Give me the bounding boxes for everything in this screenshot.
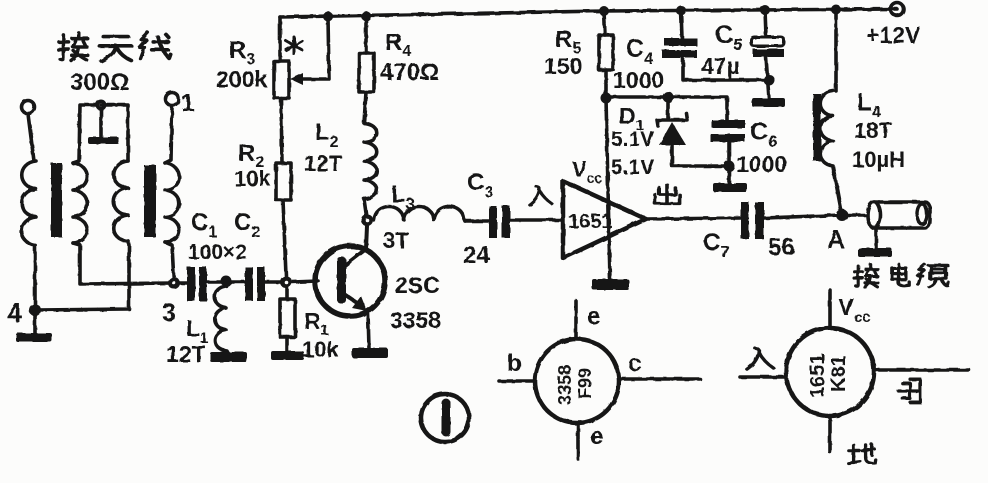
svg-text:5.1V: 5.1V [611,128,654,151]
svg-text:C1: C1 [191,209,217,241]
inductor L3 [374,206,465,221]
node 3 [168,277,180,289]
label 地 [848,444,875,463]
transformer T1 core bar [51,163,62,237]
pin b left lead [499,379,535,383]
svg-text:3358: 3358 [390,307,441,333]
node junction L4 on rail [831,5,841,15]
op-amp U1 triangle [563,181,646,258]
node junction C6/D1 [724,161,735,172]
node base junction [280,276,292,288]
wire Vcc pin through to ground pin [606,98,610,281]
label 入 [747,348,774,369]
svg-text:Vcc: Vcc [572,157,602,186]
wire top rail [280,9,897,17]
wire center tap to winding3 [101,105,128,161]
wire C3 to amplifier [510,218,563,222]
pin ground bottom lead [828,416,832,452]
wire winding4 bottom to node 3 [165,242,174,283]
capacitor C3 [489,206,497,238]
inductor L4 [820,91,833,166]
pin output right lead [874,368,969,372]
wire left terminal to winding [28,114,34,161]
capacitor C7 [741,202,749,239]
coax connector [874,202,930,228]
svg-text:150: 150 [544,53,582,79]
wire rail to R4 [364,16,368,53]
wire C7 to node A [764,215,842,218]
svg-text:10k: 10k [302,337,339,362]
svg-text:470Ω: 470Ω [380,59,439,86]
pot wiper arrowhead [290,73,303,85]
svg-text:300Ω: 300Ω [70,69,129,96]
node junction C4/C5 [764,75,775,86]
svg-text:L2: L2 [315,119,339,151]
capacitor C6 [712,120,745,128]
pin input left lead [740,375,786,379]
svg-text:R4: R4 [385,29,411,60]
label 出 rotated [899,379,921,402]
svg-text:e: e [587,303,600,330]
svg-text:2SC: 2SC [395,272,440,298]
capacitor C4 [681,10,682,38]
pin Vcc top lead [828,290,832,328]
node collector junction [361,214,373,226]
label 1651 K81 rotated [807,354,850,399]
core bar of L4 [813,94,821,161]
wire winding4 top to terminal 1 [165,106,172,163]
svg-text:4: 4 [7,298,22,328]
terminal antenna left [22,101,35,114]
svg-text:C4: C4 [626,35,654,68]
wire winding2 bottom to node 3 [73,243,174,284]
transformer T2 primary winding [114,161,128,241]
chassis stub at center tap [99,110,103,138]
svg-text:12T: 12T [166,341,206,367]
wire winding2 top to center tap [73,105,101,163]
ground of C6 [713,183,747,192]
svg-text:Vcc: Vcc [838,294,871,326]
node junction D1 top [663,92,674,103]
svg-text:C2: C2 [234,209,260,241]
transistor Q1 base bar [337,257,346,303]
wire emitter to ground [368,312,369,349]
transistor pinout circle 3358 F99 [535,339,619,423]
node junction R5/Vcc/zener rail [601,93,612,104]
capacitor C1 [187,267,195,301]
label 出 output [655,184,680,203]
svg-text:5.1V: 5.1V [611,156,654,179]
svg-text:56: 56 [768,234,795,261]
wire C2 to base node [265,280,286,284]
transformer T2 core bar [144,165,156,237]
wire rail to R5 [604,11,605,35]
wire R3 to R2 [281,98,282,163]
ground of R1 [271,351,304,360]
svg-text:1000: 1000 [736,151,787,177]
transistor Q1 collector stroke [344,226,367,266]
svg-text:10µH: 10µH [852,147,905,172]
transformer T1 primary winding left [22,161,36,245]
IC pinout circle 1651 K81 [786,328,874,416]
wire C1 to C2 [207,280,245,284]
node junction R5 on rail [599,6,609,16]
wire winding3 bottom to node 4 [35,241,129,310]
wire R2 to base node [283,200,286,276]
node junction C1/C2/L1 [221,276,232,287]
wire rail corner down to R3 [278,17,282,61]
ground of L1 [210,352,247,362]
svg-text:R3: R3 [229,37,255,68]
node junction R3 wiper on rail [323,12,333,22]
svg-text:A: A [827,226,845,254]
svg-text:1000: 1000 [613,67,664,93]
svg-text:3T: 3T [383,228,409,253]
label 入 input [529,186,552,204]
capacitor C5 electrolytic [765,10,766,36]
terminal center tap [96,100,107,111]
node junction C4 on rail [676,6,686,16]
svg-text:24: 24 [463,242,490,269]
svg-text:L4: L4 [857,89,881,121]
diode D1 zener [666,97,670,118]
node 4 [29,304,41,316]
svg-text:C3: C3 [467,169,493,201]
node junction C5 on rail [760,5,770,15]
terminal 1 [166,93,179,106]
wire R5 to Vcc node [604,70,608,98]
resistor R4 [359,53,374,92]
inductor L2 [364,123,377,199]
wire output to C7 [646,218,741,219]
svg-text:R1: R1 [304,308,329,339]
ground of C5 [752,98,785,107]
svg-text:b: b [507,350,522,377]
svg-text:+12V: +12V [866,22,921,48]
svg-text:C5: C5 [715,21,743,54]
wire base node to transistor [292,281,318,282]
label asterisk [286,37,302,54]
wire L3 to C3 [465,219,489,223]
ground of emitter [352,348,388,358]
terminal +12V [891,3,904,16]
transistor Q1 emitter stroke with arrow [344,294,360,305]
node A junction [836,209,848,221]
wire Vcc node to C6 branch [606,97,727,120]
transformer T2 secondary winding [165,163,179,242]
label 接电缆 [854,265,878,287]
ground of U1 [592,279,629,290]
pin c right lead [619,377,700,381]
resistor R2 [276,163,291,200]
svg-text:18T: 18T [854,118,892,143]
wire node3 to C1 [180,281,187,285]
transistor Q1 circle [315,246,385,316]
figure mark circled 1 [421,394,469,442]
svg-text:F99: F99 [575,368,595,399]
svg-text:200k: 200k [216,66,267,92]
node junction R4 on rail [361,11,371,21]
wire L2 to collector node [364,199,367,220]
svg-text:C7: C7 [703,229,729,261]
resistor R3 (pot body) [274,61,289,98]
transformer T1 secondary winding [73,163,87,243]
capacitor C2 [245,267,253,301]
svg-text:1651: 1651 [807,354,829,399]
svg-text:12T: 12T [304,151,342,176]
svg-text:10k: 10k [234,166,271,191]
label 3358 F99 rotated [555,365,595,405]
pin e top lead [574,301,578,339]
pot wiper arrow wire [298,17,329,79]
svg-text:100×2: 100×2 [188,241,247,264]
ground at node 4 [33,310,37,335]
wire L4 to node A [833,167,842,215]
svg-text:3358: 3358 [555,365,575,405]
inductor L1 [215,286,228,353]
svg-text:47µ: 47µ [701,53,740,79]
svg-text:K81: K81 [828,355,850,392]
resistor R5 [599,35,613,70]
ground of coax [874,228,878,249]
label 接天线 [58,33,87,61]
svg-text:C6: C6 [750,118,778,151]
wire winding1 bottom to node 4 [33,245,37,310]
svg-text:e: e [590,423,603,450]
svg-text:3: 3 [162,299,176,327]
resistor R1 [285,288,289,299]
svg-text:1: 1 [181,90,194,117]
wire R4 to L2 [364,92,366,123]
pin e bottom lead [576,423,580,459]
wire rail to L4 [834,9,838,91]
svg-text:1651: 1651 [568,211,613,233]
svg-text:c: c [628,350,641,377]
